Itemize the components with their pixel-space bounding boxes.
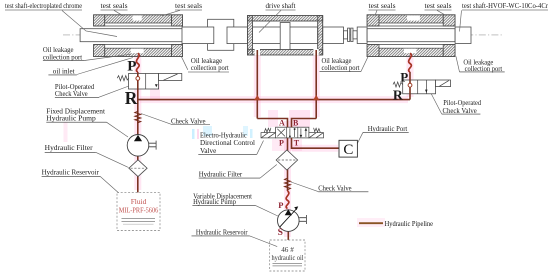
svg-text:A: A — [279, 118, 285, 127]
svg-text:Hydraulic Pipeline: Hydraulic Pipeline — [385, 219, 434, 228]
check ball node (left pilot valve) — [136, 77, 140, 81]
leader: check valve (left) — [141, 114, 171, 125]
label: drive shaft — [266, 3, 296, 10]
svg-text:B: B — [293, 118, 299, 127]
svg-text:MIL-PRF-5606: MIL-PRF-5606 — [119, 205, 159, 214]
svg-text:test shaft-electroplated chrom: test shaft-electroplated chrome — [5, 3, 82, 10]
svg-text:Hydraulic Pump: Hydraulic Pump — [46, 115, 96, 123]
test shaft (left, electroplated chrome) — [80, 27, 214, 44]
leader: test seals 4 — [437, 10, 446, 15]
label: pilot-operated check valve (right) — [442, 99, 482, 115]
check ball node (right pilot valve) — [408, 83, 412, 87]
leader: test seals 2 — [162, 10, 180, 16]
leader: hydraulic reservoir (left) — [100, 176, 119, 193]
leader: test seals 1 — [114, 10, 123, 16]
svg-text:test shaft-HVOF-WC-10Co-4Cr: test shaft-HVOF-WC-10Co-4Cr — [462, 3, 549, 10]
flexible hose (middle pump suction) — [286, 191, 289, 209]
leader: check valve (middle) — [291, 182, 318, 192]
label: oil leakage collection port (drive unit) — [320, 57, 361, 72]
svg-text:Hydraulic Reservoir: Hydraulic Reservoir — [196, 229, 248, 237]
label: fixed displacement hydraulic pump — [46, 108, 106, 123]
leader: oil inlet — [77, 58, 133, 75]
svg-text:P: P — [400, 69, 408, 84]
test seal housing (right) top — [367, 15, 455, 26]
flow arrow on left leakage junction — [254, 95, 260, 100]
wire: valve port T to hydraulic port C — [292, 138, 340, 148]
svg-text:Hydraulic Pump: Hydraulic Pump — [193, 198, 236, 206]
leader: oil leakage collection port (far left) — [84, 54, 130, 60]
wire: branch to valve port A — [257, 119, 287, 128]
svg-text:test seals: test seals — [369, 3, 396, 10]
wire: pump outlet to reservoir (middle) — [287, 231, 289, 240]
svg-text:drive shaft: drive shaft — [266, 3, 296, 10]
leader: hydraulic port C — [356, 132, 363, 146]
svg-text:test seals: test seals — [425, 3, 452, 10]
svg-text:Check Valve: Check Valve — [171, 117, 206, 125]
flow arrow on right leakage junction — [313, 95, 319, 100]
svg-text:collection port: collection port — [322, 64, 360, 72]
leader: hydraulic filter (left) — [96, 152, 129, 167]
svg-text:P: P — [279, 139, 284, 148]
label: test seals 3 — [369, 3, 396, 10]
pink compression halo along pipes — [138, 53, 410, 237]
shaft centerline — [63, 34, 502, 36]
leader: pilot-operated check valve (right) — [429, 89, 442, 115]
label: test shaft electroplated chrome — [5, 3, 82, 10]
svg-text:Pilot-Operated: Pilot-Operated — [443, 99, 481, 107]
svg-text:Hydraulic Filter: Hydraulic Filter — [45, 144, 94, 152]
coupling (left, between test shaft and drive shaft) — [208, 19, 234, 50]
label: test seals 2 — [175, 3, 202, 10]
hydraulic filter (left) — [129, 160, 147, 177]
svg-text:P: P — [127, 59, 136, 75]
wire: main horizontal pipeline — [138, 99, 410, 101]
leader: drive shaft — [259, 10, 281, 32]
label: hydraulic filter (middle) — [199, 170, 260, 178]
svg-text:test seals: test seals — [101, 3, 128, 10]
drive unit housing — [247, 16, 322, 56]
hydraulic port C box — [339, 140, 357, 158]
flexible hose (right oil port) — [409, 53, 412, 72]
test seal housing (left) bottom with oil leakage port — [94, 45, 183, 57]
label: hydraulic filter (left) — [45, 144, 96, 152]
pilot-operated check valve (left) — [117, 74, 182, 90]
svg-text:Check Valve: Check Valve — [55, 90, 88, 98]
coupling (right, between drive shaft and test shaft) — [344, 27, 368, 44]
leader: fixed displacement hydraulic pump — [107, 122, 129, 137]
svg-text:S: S — [278, 228, 283, 238]
leader: oil leakage collection port (right head) — [456, 57, 460, 72]
wire: branch to valve port B — [292, 119, 317, 128]
leader: hydraulic reservoir (middle) — [250, 236, 278, 247]
label: hydraulic port — [363, 125, 409, 133]
hydraulic reservoir (left) with MIL-PRF-5606 fluid — [117, 192, 160, 230]
svg-text:T: T — [294, 139, 300, 148]
leader: variable displacement hydraulic pump — [256, 206, 278, 216]
fixed displacement hydraulic pump — [127, 135, 156, 157]
variable displacement hydraulic pump — [278, 206, 307, 231]
wire: valve port P down to filter — [287, 138, 289, 191]
svg-text:Valve: Valve — [200, 147, 216, 155]
label: test seals 4 — [425, 3, 452, 10]
label: electro-hydraulic directional control valve — [198, 131, 257, 155]
leader: oil leakage collection port (drive unit) — [361, 56, 369, 72]
svg-text:Hydraulic Port: Hydraulic Port — [368, 125, 408, 133]
label: pilot-operated check valve (left) — [55, 83, 99, 98]
label: variable displacement hydraulic pump — [192, 192, 255, 206]
hydraulic reservoir (middle) with 46# hydraulic oil — [270, 240, 305, 271]
label: check valve (middle) — [318, 184, 368, 192]
svg-text:P: P — [278, 200, 283, 210]
pink artifact patches — [64, 84, 386, 227]
check valve (left) spring — [135, 111, 141, 123]
test seal housing (left) top — [94, 15, 183, 26]
flexible hose (left oil inlet) — [136, 53, 139, 72]
leader: oil leakage collection port (left head) — [182, 57, 188, 70]
label: check valve (left) — [171, 117, 210, 125]
label: hydraulic reservoir (middle) — [192, 229, 250, 237]
label: oil inlet — [48, 68, 76, 76]
leader: test shaft electroplated chrome — [62, 11, 117, 37]
label: oil leakage collection port (right head) — [460, 58, 505, 73]
hydraulic filter (middle) — [276, 150, 297, 170]
svg-text:test seals: test seals — [175, 3, 202, 10]
legend: hydraulic pipeline sample — [359, 219, 433, 228]
svg-text:Hydraulic Filter: Hydraulic Filter — [199, 170, 243, 178]
pilot-operated check valve (right) — [393, 80, 451, 94]
label: hydraulic reservoir (left) — [42, 169, 100, 177]
wire: left pump-to-reservoir pipe — [137, 156, 139, 193]
svg-text:oil inlet: oil inlet — [53, 68, 75, 76]
leader: pilot-operated check valve (left) — [99, 85, 132, 97]
label: test shaft HVOF-WC-10Co-4Cr — [462, 3, 549, 10]
leader: test seals 3 — [375, 10, 377, 15]
leader: electro-hydraulic directional control valve — [257, 141, 264, 155]
svg-text:Check Valve: Check Valve — [318, 184, 351, 192]
label: oil leakage collection port (left head) — [188, 57, 229, 72]
svg-text:R: R — [125, 88, 138, 108]
drive shaft segments — [227, 27, 344, 44]
svg-text:hydraulic oil: hydraulic oil — [272, 254, 304, 262]
svg-text:C: C — [343, 142, 353, 158]
wire: left supply pipe vertical (P line) — [137, 72, 139, 135]
svg-text:Directional Control: Directional Control — [200, 139, 255, 147]
leader: hydraulic filter (middle) — [260, 165, 277, 179]
wire: right oil leakage drop from drive unit — [315, 50, 317, 119]
test seal housing (right) bottom with oil leakage port — [367, 45, 455, 57]
svg-text:Hydraulic Reservoir: Hydraulic Reservoir — [42, 169, 100, 177]
wire: right return pipe vertical — [409, 72, 411, 100]
svg-text:collection port: collection port — [43, 54, 82, 62]
svg-text:R: R — [393, 87, 404, 102]
svg-text:collection port: collection port — [191, 64, 229, 72]
label: test seals 1 — [101, 3, 128, 10]
label: oil leakage collection port (far left) — [43, 46, 85, 62]
test shaft (right, HVOF-WC-10Co-4Cr) — [367, 27, 471, 44]
electro-hydraulic directional control valve (4/3) — [261, 127, 324, 138]
wire: left oil leakage drop from drive unit — [256, 50, 258, 119]
leader: test shaft HVOF — [460, 10, 462, 31]
check valve (middle) spring — [285, 178, 291, 190]
